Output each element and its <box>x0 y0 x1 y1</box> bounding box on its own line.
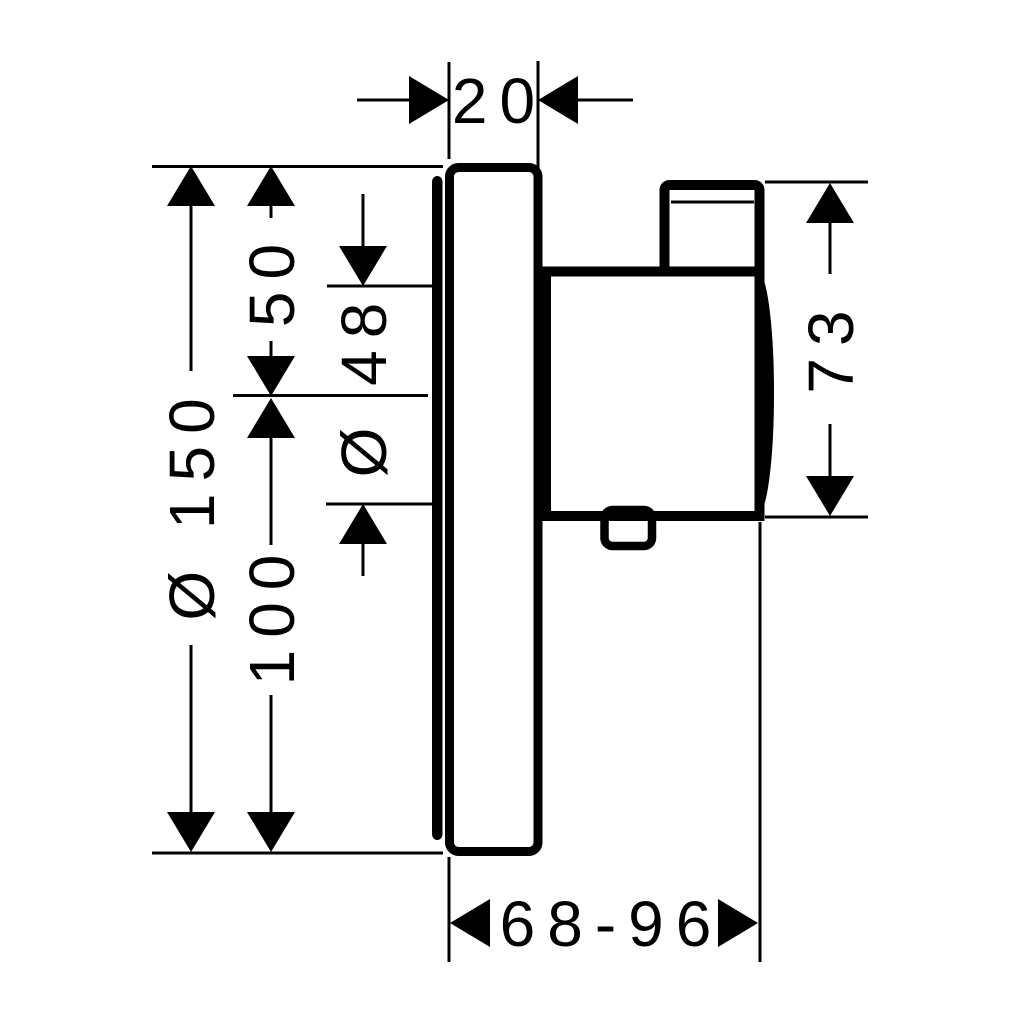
extension line: plate top (left) <box>152 165 443 168</box>
dimension Ø150: upper line <box>190 204 193 371</box>
svg-text:100: 100 <box>236 543 308 686</box>
dimension 73: bottom arrow <box>806 476 854 516</box>
dimension 20: left tail <box>357 99 410 102</box>
dimension 50: lower stub <box>270 341 273 357</box>
svg-text:20: 20 <box>452 65 547 137</box>
dimension Ø150: lower line <box>190 645 193 814</box>
flange (thin mounting plate behind escutcheon) <box>432 176 443 840</box>
dimension 100: lower line <box>270 695 273 814</box>
escutcheon plate (side view, 150 x 20) <box>450 168 539 852</box>
dimension 100: top arrow (bowtie lower) <box>247 398 295 438</box>
dimension 100: upper line <box>270 436 273 545</box>
dimension 68-96: left arrow <box>450 899 490 947</box>
dimension 20: left arrow <box>409 76 449 124</box>
dimension Ø48: bottom arrow <box>339 504 387 544</box>
extension line: handle top (73) <box>765 181 868 184</box>
dimension 73: upper line <box>829 221 832 274</box>
svg-text:68-96: 68-96 <box>500 888 724 960</box>
dimension 68-96: right arrow <box>718 899 758 947</box>
extension line: 68-96 right <box>759 522 762 962</box>
svg-text:50: 50 <box>236 232 308 327</box>
handle (top knob, side view) <box>665 185 760 272</box>
dimension Ø150: bottom arrow <box>167 812 215 852</box>
dimension 20: right tail <box>577 99 633 102</box>
svg-text:Ø 150: Ø 150 <box>156 386 228 620</box>
dimension 100: bottom arrow <box>247 812 295 852</box>
extension line: cylinder top (Ø48) <box>327 285 433 288</box>
svg-text:Ø 48: Ø 48 <box>328 291 400 478</box>
extension line: 68-96 left <box>448 857 451 962</box>
body dome bulge (curved right face) <box>757 272 773 514</box>
dimension 73: lower line <box>829 424 832 478</box>
extension line: 20 left <box>448 62 451 159</box>
handle inner cap line <box>671 201 754 204</box>
dimension Ø48: top arrow <box>339 246 387 286</box>
dimension 50: top arrow <box>247 166 295 206</box>
extension line: plate bottom (left) <box>152 852 443 855</box>
dimension 50: bottom arrow (bowtie upper) <box>247 356 295 396</box>
dimension 73: top arrow <box>806 183 854 223</box>
valve body (side view) <box>546 272 760 517</box>
dimension Ø48: top tail <box>362 194 365 248</box>
extension line: cylinder bottom (Ø48) <box>326 503 433 506</box>
dimension 20: right arrow <box>538 76 578 124</box>
dimension Ø48: bottom tail <box>362 542 365 576</box>
dimension 50: upper stub <box>270 204 273 218</box>
extension line: 20 right <box>537 61 540 168</box>
svg-text:73: 73 <box>795 298 867 393</box>
axis line (50/100 split) <box>233 394 428 397</box>
extension line: body bottom (73) <box>765 516 868 519</box>
dimension Ø150: top arrow <box>167 166 215 206</box>
bottom tab (stop button) <box>605 510 653 546</box>
